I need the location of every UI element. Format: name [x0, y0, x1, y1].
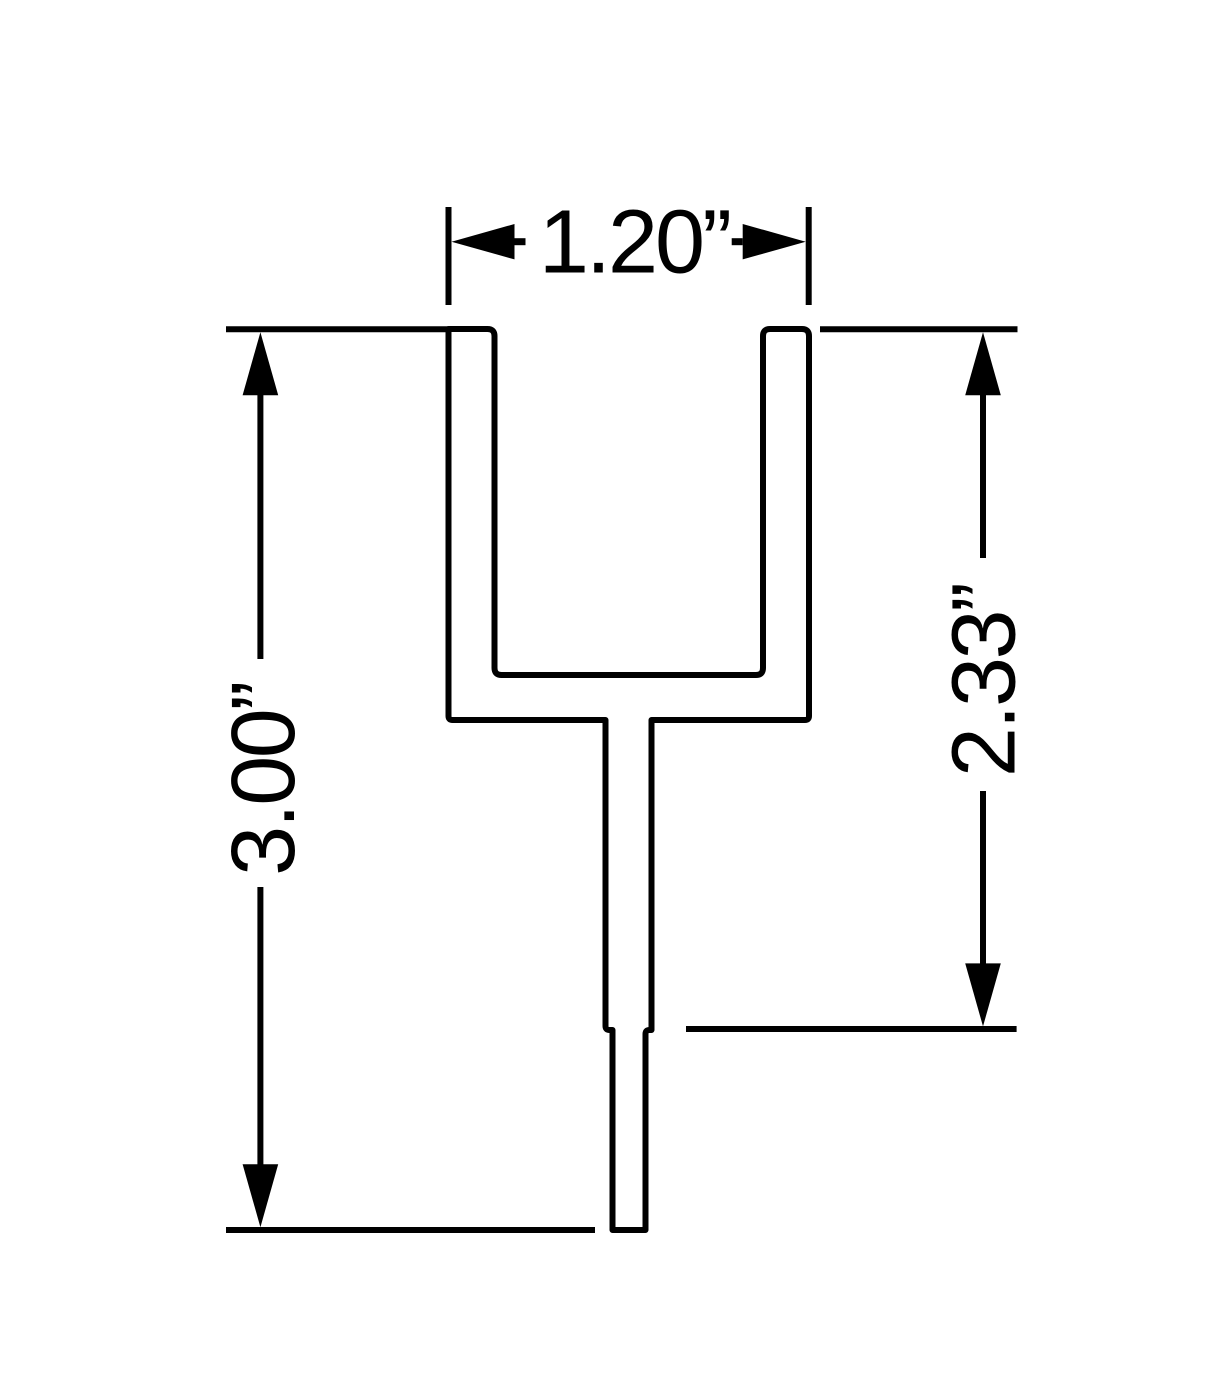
top dimension 1.20" : left extension line: [446, 207, 452, 305]
left dimension 3.00" : top extension line: [226, 326, 451, 332]
profile outline of U-channel with stem: [449, 329, 810, 1230]
svg-text:3.00”: 3.00”: [214, 683, 314, 876]
top dimension 1.20" : left arrow: [452, 224, 515, 259]
right dimension 2.33" : top extension line: [820, 326, 1018, 332]
right dimension 2.33" : dimension line upper segment with up arrow: [965, 332, 1001, 395]
top dimension 1.20" : right extension line: [806, 207, 812, 305]
right dimension 2.33" : bottom extension line: [686, 1026, 1017, 1032]
right dimension 2.33" : dimension line lower segment with down arrow: [980, 791, 986, 968]
top dimension 1.20" : right arrow: [743, 224, 806, 259]
svg-text:1.20”: 1.20”: [539, 192, 729, 292]
left dimension 3.00" : dimension line lower segment with down arrow: [257, 887, 263, 1172]
svg-text:2.33”: 2.33”: [935, 584, 1035, 777]
left dimension 3.00" : dimension line upper segment with up arrow: [243, 332, 279, 395]
left dimension 3.00" : bottom extension line: [226, 1227, 595, 1233]
